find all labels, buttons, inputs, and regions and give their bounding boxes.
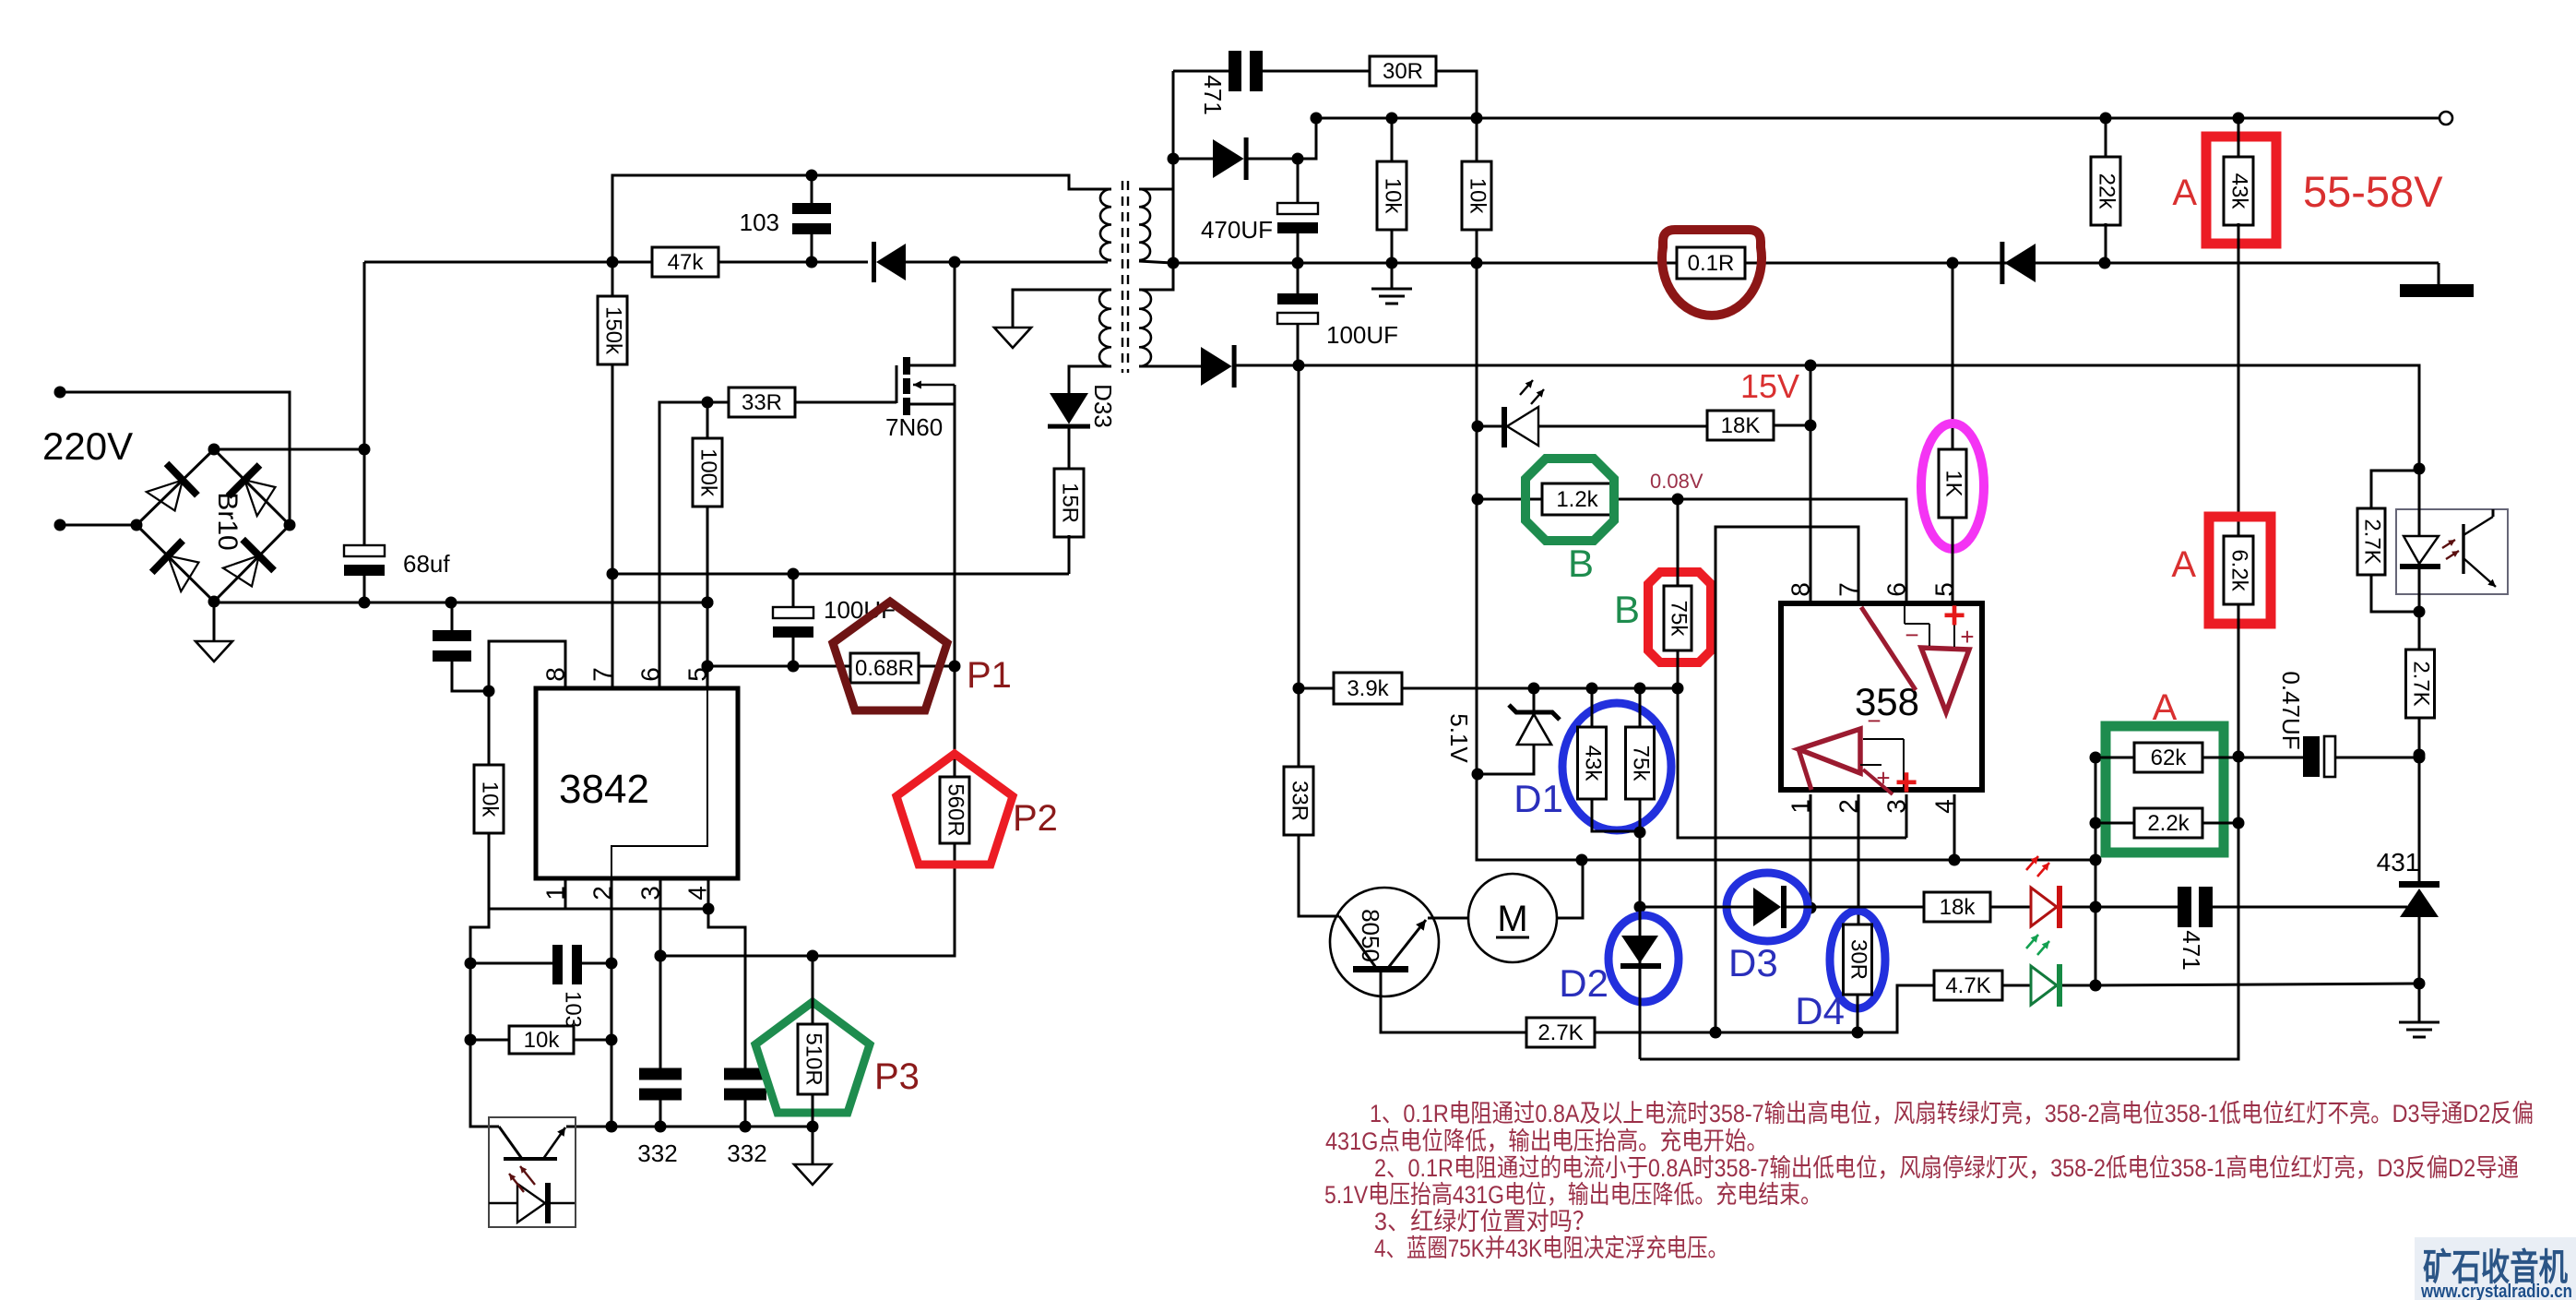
- wire sec1 top to snubber node: [1139, 188, 1173, 191]
- svg-text:A: A: [2153, 687, 2178, 728]
- svg-text:150k: 150k: [601, 306, 626, 355]
- svg-text:4、蓝圈75K并43K电阻决定浮充电压。: 4、蓝圈75K并43K电阻决定浮充电压。: [1374, 1234, 1728, 1262]
- svg-text:5: 5: [683, 667, 711, 682]
- wire HV+ vertical: [363, 262, 366, 545]
- svg-text:1K: 1K: [1941, 470, 1966, 496]
- svg-text:358: 358: [1855, 680, 1919, 723]
- P2 pentagon annotation: [896, 754, 1013, 865]
- op-amp B internal: [1798, 729, 1860, 773]
- svg-text:+: +: [1876, 764, 1890, 792]
- zener 5.1V: [1533, 688, 1536, 712]
- svg-text:33R: 33R: [1288, 781, 1312, 821]
- resistor 47k: [652, 247, 718, 277]
- wire to output+ rail: [1298, 118, 1316, 159]
- optocoupler LED: [489, 1202, 575, 1204]
- pin3 wire down: [659, 878, 662, 1068]
- resistor 18K: [1707, 411, 1774, 440]
- optocoupler U3 LED side box: [2396, 509, 2508, 594]
- svg-text:B: B: [1614, 588, 1640, 631]
- resistor 2.7K opto parallel: [2371, 471, 2419, 509]
- svg-text:10k: 10k: [478, 781, 503, 818]
- wire 0.68R sense line: [707, 665, 850, 668]
- svg-text:68uf: 68uf: [403, 550, 450, 578]
- svg-text:30R: 30R: [1846, 939, 1871, 980]
- capacitor 103 snubber top: [811, 175, 813, 204]
- svg-text:5.1V电压抬高431G电位，输出电压降低。充电结束。: 5.1V电压抬高431G电位，输出电压降低。充电结束。: [1324, 1181, 1822, 1209]
- transformer T1 core: [1122, 181, 1123, 373]
- wire 1.2k to pin6: [1678, 499, 1906, 603]
- transformer secondary 2: [1139, 290, 1151, 366]
- resistor 10k bleeder 1: [1391, 118, 1394, 161]
- svg-text:10k: 10k: [524, 1028, 561, 1053]
- pin4 wire: [707, 878, 710, 909]
- wire pin2 to 30R: [1858, 794, 1860, 924]
- wire vcc15 column x1602: [1477, 230, 2095, 860]
- resistor 100k: [706, 402, 709, 438]
- resistor 30R D4: [1830, 911, 1885, 1008]
- svg-text:55-58V: 55-58V: [2303, 167, 2443, 216]
- node AC input terminals 220V: [54, 387, 66, 399]
- wire pin3 stub: [1905, 794, 1908, 838]
- optocoupler U3 box: [489, 1117, 576, 1227]
- wire Vcc rail to 15R: [612, 573, 1069, 576]
- transistor Q1 7N60 MOSFET: [896, 365, 898, 403]
- svg-text:D2: D2: [1559, 961, 1609, 1005]
- diode D rect 15V: [1201, 347, 1232, 386]
- wire 47k to diode: [718, 261, 868, 264]
- resistor 2.7K opto series: [2418, 612, 2421, 650]
- resistor 30R snubber: [1370, 56, 1436, 86]
- svg-text:2、0.1R电阻通过的电流小于0.8A时358-7输出低电位: 2、0.1R电阻通过的电流小于0.8A时358-7输出低电位，风扇停绿灯灭，35…: [1374, 1154, 2519, 1182]
- output+ rail 55-58V: [1316, 117, 2439, 120]
- bridge rectifier Br10: [137, 449, 290, 602]
- P3 pentagon annotation: [755, 1002, 870, 1113]
- svg-text:0.68R: 0.68R: [855, 656, 914, 681]
- resistor 15R: [1068, 427, 1071, 471]
- svg-text:332: 332: [727, 1139, 766, 1167]
- transformer primary winding: [1100, 189, 1111, 260]
- ground 431: [2399, 1021, 2439, 1024]
- optocoupler phototransistor: [2462, 524, 2464, 574]
- svg-text:560R: 560R: [944, 783, 968, 836]
- diode on gnd rail (points left): [2004, 244, 2036, 282]
- svg-text:75k: 75k: [1629, 745, 1654, 782]
- LED red charge: [1990, 906, 2031, 909]
- D1 blue ellipse annotation: [1562, 703, 1671, 830]
- svg-text:10k: 10k: [1381, 178, 1406, 215]
- svg-text:6: 6: [635, 667, 664, 682]
- svg-text:0.08V: 0.08V: [1650, 470, 1703, 493]
- wire feedback line pin4: [489, 908, 708, 911]
- green box A annotation: [2106, 726, 2224, 853]
- svg-text:100k: 100k: [696, 448, 721, 497]
- wire HV top line: [364, 261, 653, 264]
- resistor 10k fb: [470, 1039, 509, 1042]
- wire sec2 bottom to D rect 15V: [1139, 365, 1201, 368]
- svg-text:7: 7: [588, 667, 616, 682]
- svg-text:510R: 510R: [801, 1032, 826, 1085]
- svg-text:18k: 18k: [1940, 895, 1977, 920]
- svg-text:431G点电位降低，输出电压抬高。充电开始。: 431G点电位降低，输出电压抬高。充电开始。: [1325, 1127, 1768, 1155]
- svg-text:43k: 43k: [2227, 173, 2252, 210]
- svg-text:220V: 220V: [42, 424, 133, 468]
- resistor 10k osc: [488, 691, 491, 767]
- wire source down to P2: [660, 666, 955, 956]
- svg-text:Br10: Br10: [212, 492, 243, 550]
- 0.1R horseshoe annotation: [1662, 230, 1762, 316]
- svg-text:62k: 62k: [2151, 745, 2188, 770]
- capacitor 68uf: [344, 545, 385, 556]
- svg-text:4.7K: 4.7K: [1945, 973, 1990, 998]
- resistor 0.1R shunt: [1477, 262, 1678, 265]
- svg-text:5.1V: 5.1V: [1445, 713, 1473, 763]
- wire 150k down to pin7 line: [611, 262, 614, 688]
- svg-text:3.9k: 3.9k: [1347, 676, 1389, 701]
- op-amp A internal: [1921, 648, 1969, 712]
- wire 8050 base: [1381, 972, 1526, 1032]
- svg-text:1、0.1R电阻通过0.8A及以上电流时358-7输出高电位: 1、0.1R电阻通过0.8A及以上电流时358-7输出高电位，风扇转绿灯亮，35…: [1370, 1100, 2534, 1127]
- svg-text:2.7K: 2.7K: [2409, 661, 2434, 706]
- resistor 43k A: [2206, 137, 2276, 244]
- LED green full: [2002, 984, 2031, 987]
- svg-text:75k: 75k: [1667, 601, 1692, 638]
- svg-text:3、红绿灯位置对吗？: 3、红绿灯位置对吗？: [1374, 1208, 1596, 1235]
- motor M: [1428, 917, 1468, 920]
- wire AC top: [60, 392, 290, 525]
- resistor 33R gate: [729, 388, 795, 417]
- svg-text:2.2k: 2.2k: [2147, 811, 2190, 836]
- svg-text:D4: D4: [1795, 989, 1845, 1032]
- wire aux top to ground: [1013, 290, 1111, 328]
- svg-text:−: −: [1905, 621, 1918, 649]
- watermark: [2415, 1237, 2576, 1300]
- resistor 43k D1: [1591, 688, 1594, 727]
- capacitor 471 snubber: [1173, 70, 1229, 73]
- svg-text:47k: 47k: [668, 250, 705, 275]
- resistor 1.2k B: [1478, 498, 1542, 501]
- battery negative bar: [2438, 263, 2440, 284]
- wire green line to 431: [2095, 984, 2419, 985]
- svg-text:2.7K: 2.7K: [2360, 519, 2385, 564]
- resistor 10k bleeder 2: [1476, 118, 1478, 161]
- pin2 wire down: [611, 878, 613, 1127]
- resistor 75k D1: [1639, 688, 1642, 727]
- resistor 4.7K green LED: [1934, 971, 2002, 1000]
- svg-text:P2: P2: [1013, 798, 1058, 839]
- svg-text:103: 103: [740, 209, 779, 236]
- resistor 2.7K base: [1526, 1018, 1595, 1047]
- 15V rail: [1235, 365, 2419, 471]
- resistor 560R: [940, 777, 969, 843]
- wire jog to left column: [470, 909, 499, 1127]
- svg-text:8: 8: [1786, 582, 1814, 597]
- svg-text:7N60: 7N60: [885, 413, 943, 441]
- resistor 22k: [2105, 118, 2107, 159]
- transformer aux winding: [1099, 290, 1111, 366]
- svg-text:−: −: [1867, 707, 1881, 734]
- capacitor 103 comp: [470, 962, 553, 965]
- IC U1 3842: [536, 688, 738, 878]
- resistor 33R b: [1284, 767, 1313, 835]
- svg-text:10k: 10k: [1466, 178, 1490, 215]
- svg-text:D3: D3: [1728, 941, 1778, 984]
- svg-text:332: 332: [637, 1139, 677, 1167]
- svg-text:470UF: 470UF: [1201, 216, 1273, 244]
- B octagon annotation: [1525, 459, 1614, 541]
- svg-text:22k: 22k: [2095, 173, 2119, 210]
- svg-text:D1: D1: [1514, 777, 1563, 820]
- wire 100UF-33R column: [1298, 365, 1300, 767]
- pin1 wire down to feedback line: [564, 878, 567, 909]
- wire pin1 to D3-18k: [1810, 794, 1812, 908]
- secondary ground rail: [1173, 262, 2439, 265]
- capacitor 103 osc: [452, 661, 489, 691]
- wire 358 pin8 supply: [1810, 365, 1812, 603]
- P1 pentagon annotation: [833, 602, 947, 710]
- wire DC- rail: [214, 602, 707, 604]
- svg-text:A: A: [2172, 173, 2197, 213]
- svg-text:33R: 33R: [742, 390, 782, 415]
- svg-text:M: M: [1497, 899, 1527, 939]
- svg-text:100UF: 100UF: [1326, 321, 1398, 349]
- diode D33: [1050, 393, 1088, 424]
- ground below bridge: [213, 602, 216, 641]
- svg-text:3842: 3842: [559, 767, 649, 812]
- resistor 510R: [812, 956, 814, 1024]
- wire 43k down to 6.2k: [2238, 223, 2240, 536]
- capacitor 470UF: [1297, 159, 1300, 203]
- svg-text:30R: 30R: [1383, 59, 1423, 84]
- wire 100k bottom to gnd rail and pin5: [706, 507, 709, 688]
- resistor 75k B: [1648, 572, 1711, 662]
- resistor 1K (magenta): [1952, 263, 1954, 450]
- svg-text:43k: 43k: [1581, 745, 1606, 782]
- wire 33R left to pin6: [659, 402, 728, 688]
- svg-text:1.2k: 1.2k: [1556, 487, 1598, 512]
- svg-text:D33: D33: [1089, 384, 1117, 428]
- wire sec1 bottom junction: [1139, 261, 1173, 263]
- wire pin4 gnd stub: [1953, 794, 1956, 860]
- svg-text:A: A: [2171, 544, 2196, 585]
- resistor 62k: [2095, 757, 2134, 759]
- wire diode to drain node: [906, 261, 1108, 264]
- wire opto column right: [2414, 463, 2426, 475]
- wire top feed line: [612, 175, 1108, 262]
- svg-text:+: +: [1895, 760, 1918, 804]
- svg-text:471: 471: [2178, 930, 2205, 970]
- transistor Q2 8050: [1330, 888, 1439, 996]
- wire aux bottom to D33: [1069, 366, 1111, 393]
- resistor 0.68R: [850, 653, 919, 683]
- wire fb column x2272: [2095, 757, 2097, 985]
- capacitor 100UF vcc: [792, 574, 795, 607]
- svg-text:0.47UF: 0.47UF: [2277, 671, 2305, 749]
- wire 33R right to gate: [796, 401, 896, 404]
- capacitor 471 fb: [2095, 906, 2178, 909]
- svg-text:431: 431: [2377, 848, 2420, 877]
- svg-text:15R: 15R: [1058, 483, 1083, 523]
- resistor 2.2k: [2095, 822, 2134, 825]
- wire bridge top to node: [214, 448, 364, 451]
- svg-text:18K: 18K: [1721, 413, 1761, 438]
- svg-text:2.7K: 2.7K: [1537, 1020, 1583, 1045]
- capacitor 100UF sec: [1277, 293, 1318, 304]
- diode startup (points left): [876, 244, 906, 280]
- svg-text:6.2k: 6.2k: [2227, 549, 2252, 591]
- svg-text:P3: P3: [874, 1056, 920, 1097]
- svg-text:+: +: [1960, 623, 1974, 650]
- wire AC bottom: [60, 524, 137, 527]
- transformer secondary 1: [1139, 189, 1150, 260]
- IC U2 358: [1781, 603, 1982, 790]
- resistor 18k red LED: [1810, 906, 1924, 909]
- capacitor 0.47UF: [2238, 757, 2304, 759]
- resistor 3.9k: [1299, 687, 1334, 690]
- wire bottom rail to P3 ground: [566, 1126, 813, 1128]
- optocoupler transistor: [499, 1127, 522, 1159]
- svg-text:0.1R: 0.1R: [1688, 251, 1735, 276]
- ground below 510R: [812, 1127, 814, 1164]
- LED indicator 15V: [1478, 425, 1504, 428]
- capacitor 332 b: [724, 1068, 766, 1080]
- svg-text:B: B: [1568, 542, 1594, 585]
- svg-text:P1: P1: [967, 655, 1012, 696]
- svg-text:6: 6: [1882, 582, 1910, 597]
- diode D rect main output: [1173, 158, 1213, 161]
- svg-text:15V: 15V: [1740, 367, 1799, 405]
- resistor 6.2k A: [2209, 517, 2271, 624]
- svg-text:www.crystalradio.cn: www.crystalradio.cn: [2420, 1282, 2572, 1300]
- svg-text:8050: 8050: [1357, 909, 1384, 962]
- capacitor 332 a: [639, 1068, 682, 1080]
- pin8 wire to RC: [489, 641, 565, 692]
- svg-text:471: 471: [1199, 75, 1227, 114]
- diode D3: [1727, 873, 1808, 941]
- ground symbol under 10k: [1391, 263, 1394, 289]
- diode D2: [1609, 915, 1679, 1002]
- resistor 150k: [598, 296, 627, 364]
- svg-text:103: 103: [561, 991, 586, 1028]
- wire pin7 to fan drive: [1715, 527, 1858, 1032]
